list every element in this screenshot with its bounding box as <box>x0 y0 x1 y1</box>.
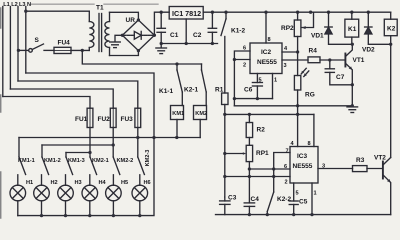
ground main <box>156 44 167 54</box>
transformer T1 primary <box>89 11 94 50</box>
junction bridge top <box>137 18 140 21</box>
capacitor C7 <box>325 60 352 85</box>
resistor R2 <box>246 114 252 145</box>
junction N lineA <box>152 136 155 139</box>
lamp H3 <box>58 175 74 216</box>
wire IC2 pin3 <box>282 59 308 61</box>
svg-text:NE555: NE555 <box>257 59 277 66</box>
contact K2-2 <box>267 169 273 215</box>
svg-text:KM1: KM1 <box>172 111 184 117</box>
wire secondary bottom to bridge <box>110 51 139 56</box>
lamp H4 <box>82 175 98 216</box>
svg-text:5: 5 <box>259 78 262 84</box>
contact K2-1 <box>202 64 207 106</box>
wire L3 tap to switch <box>18 49 28 51</box>
junction C7 top <box>328 58 331 61</box>
junction bridge right <box>153 34 156 37</box>
junction bus H4 <box>88 214 91 217</box>
junction C6 bottom <box>256 97 259 100</box>
wire L3 bend to FU3 <box>18 81 138 108</box>
wire IC3 pin1 <box>311 183 313 215</box>
wire IC3 pin7 <box>274 153 290 170</box>
switch S <box>29 44 54 52</box>
contact KM1-3 <box>66 153 73 175</box>
svg-text:FU3: FU3 <box>121 116 134 123</box>
svg-text:RP2: RP2 <box>281 25 294 32</box>
junction bus H2 <box>40 214 43 217</box>
wire R1 to rail2 <box>224 105 226 115</box>
transistor VT2 <box>383 158 391 215</box>
wire ground bus under IC1 <box>161 43 217 45</box>
contactor coil KM2 <box>194 106 207 138</box>
junction K1-1 tap <box>175 62 178 65</box>
wire K2 to VT2 collector <box>390 44 392 157</box>
svg-text:L2: L2 <box>11 2 18 8</box>
svg-text:1: 1 <box>274 78 277 84</box>
svg-text:6: 6 <box>243 46 246 52</box>
op-amp IC3 NE555 <box>290 147 318 184</box>
svg-text:2: 2 <box>285 180 288 186</box>
svg-text:H5: H5 <box>121 180 128 186</box>
bridge rectifier UR <box>122 20 154 51</box>
photoresistor RG <box>294 52 308 114</box>
wire bridge out to IC1 <box>154 12 169 35</box>
contact K1-2 <box>221 12 226 35</box>
transistor VT1 <box>345 44 352 106</box>
svg-text:K2-2: K2-2 <box>277 196 291 203</box>
svg-text:RG: RG <box>305 92 315 99</box>
svg-text:K1-2: K1-2 <box>231 28 245 35</box>
transformer T1 core <box>99 14 102 52</box>
junction RG rail link bottom <box>296 113 299 116</box>
wire left rail down <box>224 114 226 197</box>
junction C5 rail <box>292 213 295 216</box>
svg-text:1: 1 <box>314 191 317 197</box>
svg-text:S: S <box>35 37 40 44</box>
wire IC2 pin4 <box>282 51 298 53</box>
svg-text:H3: H3 <box>75 180 82 186</box>
svg-text:K1: K1 <box>348 26 357 33</box>
junction C4 pin2 line <box>248 175 251 178</box>
resistor R3 <box>353 166 368 172</box>
wire R3 to VT2 <box>367 168 382 170</box>
wire IC2 pin1 <box>272 74 274 99</box>
junction IC1 gnd <box>185 42 188 45</box>
contactor coil KM1 <box>171 106 184 138</box>
wire L2 bend to FU2 <box>10 89 113 108</box>
wire IC3 pin5 <box>293 183 295 201</box>
node L1 <box>2 7 4 97</box>
wire IC3 pin8 <box>313 114 315 146</box>
svg-text:C1: C1 <box>170 32 179 39</box>
svg-text:H4: H4 <box>99 180 107 186</box>
wire N to transformer primary top <box>26 10 90 12</box>
diode VD2 <box>365 12 391 44</box>
svg-text:R4: R4 <box>309 48 318 55</box>
relay K1 <box>345 12 359 44</box>
svg-text:C7: C7 <box>336 74 345 81</box>
svg-text:T1: T1 <box>96 5 104 12</box>
junction pin7 pin6 <box>272 167 275 170</box>
junction K1 VD1 VT1 <box>351 43 354 46</box>
wire IC1 gnd pin <box>185 19 187 44</box>
junction C1 bottom <box>160 42 163 45</box>
wire IC2 pin6 <box>234 51 250 60</box>
svg-text:VT2: VT2 <box>374 155 386 162</box>
junction RP1 wiper rail <box>223 152 226 155</box>
capacitor C2 <box>208 12 216 43</box>
resistor R4 <box>308 57 320 63</box>
wire IC3 pin2 <box>225 176 290 178</box>
junction R2 top <box>248 113 251 116</box>
svg-text:H6: H6 <box>144 180 151 186</box>
svg-text:IC2: IC2 <box>261 49 272 56</box>
junction RP2 wiper rail <box>309 11 312 14</box>
junction pin4 RP2 <box>296 50 299 53</box>
svg-text:H1: H1 <box>26 180 33 186</box>
junction bus H3 <box>64 214 67 217</box>
junction pin1 rail <box>310 213 313 216</box>
fuse FU2 <box>110 108 116 157</box>
svg-text:NE555: NE555 <box>293 163 313 170</box>
node N <box>25 7 27 74</box>
node L3 <box>17 7 19 82</box>
lamp H1 <box>10 175 26 216</box>
svg-text:L3: L3 <box>19 2 26 8</box>
wire IC2 pin5 <box>256 74 258 83</box>
junction K2 VD2 <box>389 43 392 46</box>
junction RP2 top tap <box>296 11 299 14</box>
junction C4 rail <box>248 213 251 216</box>
svg-text:8: 8 <box>268 37 271 43</box>
junction RP1 bottom <box>248 167 251 170</box>
junction K1-2 tap <box>224 11 227 14</box>
svg-text:KM2: KM2 <box>195 111 207 117</box>
junction C7 emitter <box>351 83 354 86</box>
scan artifact line top <box>31 3 158 5</box>
scan artifact left edge <box>0 8 2 218</box>
junction VD1 tap <box>327 11 330 14</box>
svg-text:KM1-2: KM1-2 <box>44 158 61 164</box>
ground at bridge <box>110 42 121 48</box>
junction bridge left <box>121 34 124 37</box>
svg-text:3: 3 <box>284 63 287 69</box>
wire gnd rail mid <box>234 105 352 107</box>
wire N bend down to lamp return <box>26 73 154 138</box>
resistor R1 <box>222 93 228 105</box>
svg-text:RP1: RP1 <box>256 150 269 157</box>
junction C2 bottom <box>211 42 214 45</box>
svg-text:UR: UR <box>126 17 136 24</box>
svg-text:8: 8 <box>308 141 311 147</box>
svg-text:N: N <box>27 2 31 8</box>
wire pin1 line <box>234 98 272 100</box>
junction bus H6 <box>138 214 141 217</box>
svg-text:FU2: FU2 <box>98 116 111 123</box>
svg-text:L1: L1 <box>3 2 10 8</box>
wire IC2 pin2 <box>234 59 250 61</box>
wire IC3 pin4 <box>297 114 299 146</box>
svg-text:C3: C3 <box>228 195 237 202</box>
wire lamp line C <box>66 152 90 154</box>
contact KM2-2 <box>113 157 120 175</box>
junction C2 top <box>211 11 214 14</box>
junction N tap <box>24 10 27 13</box>
capacitor C6 <box>252 83 262 99</box>
junction FU4 output <box>81 49 84 52</box>
capacitor C1 <box>157 12 165 43</box>
node L2 <box>9 7 11 90</box>
fuse FU1 <box>87 108 93 157</box>
wire R4 to VT1 base <box>320 59 345 61</box>
svg-text:KM1-3: KM1-3 <box>68 158 85 164</box>
svg-text:FU1: FU1 <box>75 116 88 123</box>
svg-text:7: 7 <box>286 149 289 155</box>
svg-text:C6: C6 <box>244 87 253 94</box>
wire L1 bend to FU1 <box>3 97 90 109</box>
svg-text:R3: R3 <box>356 157 365 164</box>
wire IC3 pin6 <box>249 168 290 170</box>
diode VD1 <box>325 12 353 44</box>
svg-text:KM2-1: KM2-1 <box>92 158 109 164</box>
svg-text:KM1-1: KM1-1 <box>18 158 35 164</box>
contact KM2-3 <box>138 157 145 175</box>
junction bridge bottom <box>137 49 140 52</box>
wire lamp return bus <box>18 138 154 216</box>
capacitor C4 <box>244 169 254 215</box>
contact KM1-1 <box>19 138 26 175</box>
contact KM2-1 <box>90 157 97 175</box>
junction pin2 line left <box>223 175 226 178</box>
svg-text:K1-1: K1-1 <box>159 88 173 95</box>
junction trigger gnd line <box>233 97 236 100</box>
svg-text:IC3: IC3 <box>297 153 308 160</box>
wire control feed down-right <box>82 50 201 64</box>
junction FU1 lineC <box>88 151 91 154</box>
svg-text:C5: C5 <box>299 199 308 206</box>
wire down to gnd rail <box>233 99 235 106</box>
ground at VT1 emitter <box>347 107 358 113</box>
junction FU2 lineB <box>112 143 115 146</box>
svg-text:K2-1: K2-1 <box>184 87 198 94</box>
wire IC3 pin3 <box>318 168 353 170</box>
wire lamp line A <box>19 137 200 139</box>
junction K2-2 rail <box>266 213 269 216</box>
junction bus H5 <box>112 214 115 217</box>
svg-text:FU4: FU4 <box>58 40 71 47</box>
svg-text:2: 2 <box>243 63 246 69</box>
junction K2-2 pin2 line <box>272 175 275 178</box>
junction C1 top <box>160 11 163 14</box>
svg-text:R2: R2 <box>257 127 266 134</box>
junction FU3 lineA <box>136 136 139 139</box>
svg-text:K2: K2 <box>387 26 396 33</box>
junction VT1 emitter rail <box>351 104 354 107</box>
potentiometer RP2 <box>294 12 313 52</box>
svg-text:5: 5 <box>296 191 299 197</box>
capacitor C3 <box>220 197 230 215</box>
junction KM1 coil N <box>175 136 178 139</box>
svg-text:6: 6 <box>284 164 287 170</box>
junction L3 switch tap <box>17 49 20 52</box>
junction K1 relay tap <box>350 11 353 14</box>
capacitor C5 <box>289 201 298 215</box>
wire secondary top to bridge <box>110 12 139 20</box>
potentiometer RP1 <box>225 145 253 169</box>
wire IC2 pin8 <box>265 12 267 43</box>
svg-text:H2: H2 <box>51 180 58 186</box>
wire lamp line B <box>42 144 113 146</box>
wire +12V rail <box>203 11 391 13</box>
contact K1-1 <box>177 64 182 106</box>
junction IC2 pin8 tap <box>264 11 267 14</box>
lamp H5 <box>106 175 122 216</box>
wire K1-2 down to R1 <box>224 37 226 94</box>
lamp H6 <box>132 175 148 216</box>
svg-text:C2: C2 <box>193 32 202 39</box>
svg-text:4: 4 <box>284 46 288 52</box>
svg-text:KM2-3: KM2-3 <box>145 150 151 167</box>
wire rail2 <box>225 113 314 115</box>
svg-text:C4: C4 <box>251 196 260 203</box>
junction VD2 tap <box>367 11 370 14</box>
junction RG rail link top <box>296 104 299 107</box>
svg-text:IC1 7812: IC1 7812 <box>172 9 201 18</box>
relay K2 <box>384 12 397 44</box>
svg-text:R1: R1 <box>215 87 224 94</box>
svg-text:KM2-2: KM2-2 <box>117 158 134 164</box>
transformer T1 secondary <box>105 12 110 55</box>
svg-text:3: 3 <box>322 164 325 170</box>
wire bottom rail control <box>216 214 391 216</box>
svg-text:VD1: VD1 <box>311 33 324 40</box>
junction R1 rail2 <box>223 113 226 116</box>
svg-text:VD2: VD2 <box>362 47 375 54</box>
wire trigger down <box>233 60 235 99</box>
svg-text:VT1: VT1 <box>353 57 365 64</box>
wire bridge left to ground <box>115 35 122 41</box>
junction pin2/6 <box>233 58 236 61</box>
regulator IC1 7812 <box>169 7 203 20</box>
fuse FU3 <box>135 108 141 157</box>
op-amp IC2 NE555 <box>250 43 282 74</box>
wire FU4 to transformer <box>71 49 89 51</box>
contact KM1-2 <box>42 145 49 175</box>
lamp H2 <box>34 175 50 216</box>
fuse FU4 <box>54 47 71 53</box>
